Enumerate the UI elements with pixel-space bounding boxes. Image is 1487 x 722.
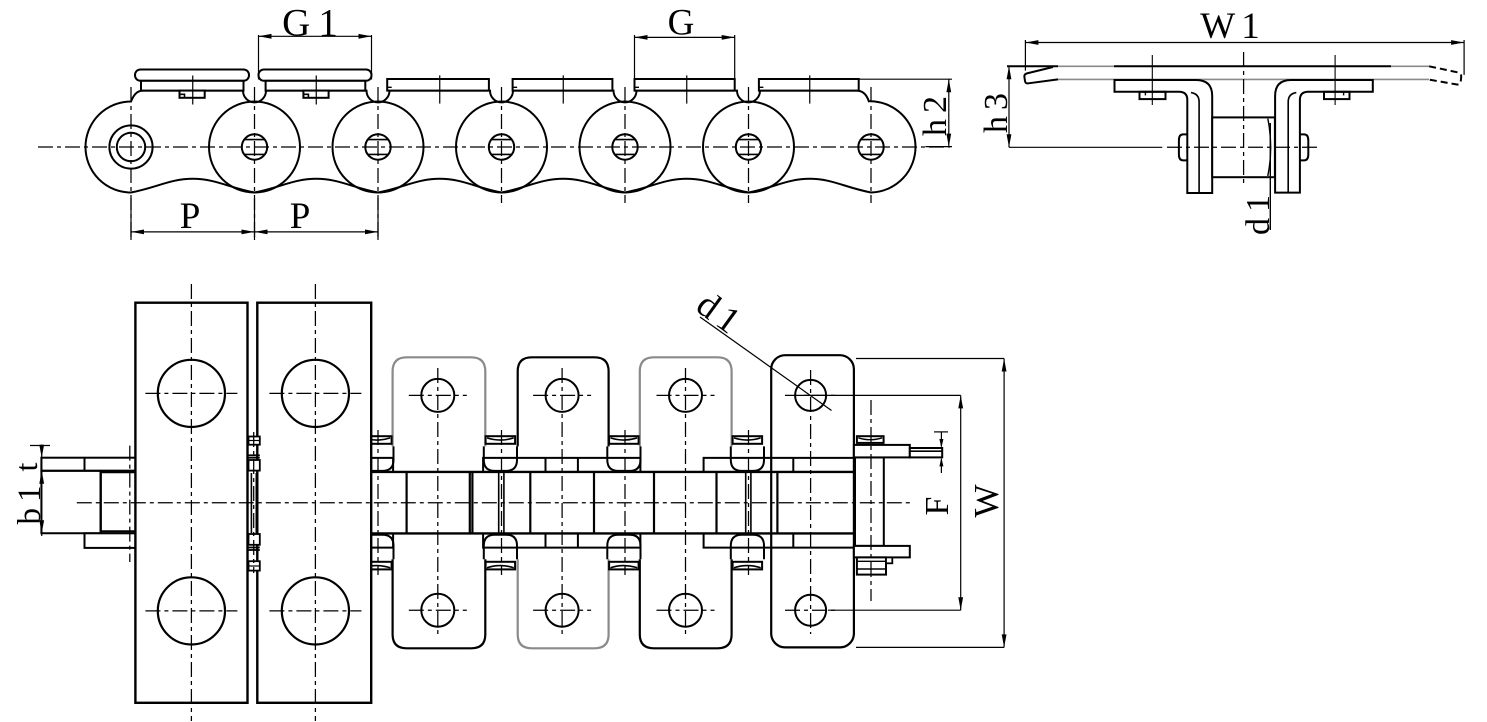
right end pin strip bbox=[855, 457, 884, 546]
plan view horizontal centerline bbox=[77, 502, 913, 504]
attachment plate 1 top bar bbox=[135, 70, 249, 81]
band dividers (bush/roller edges) bbox=[406, 472, 408, 534]
svg-text:P: P bbox=[290, 196, 317, 237]
attachment 5 center mark bbox=[686, 75, 688, 103]
svg-text:d1: d1 bbox=[689, 284, 753, 346]
attachment plate 2 flange bbox=[266, 81, 366, 91]
dimension h3 bbox=[1008, 66, 1010, 147]
mid-pitch centerlines through small plate holes bbox=[437, 368, 439, 637]
dimension t / b1 bbox=[41, 445, 43, 537]
small attachment plates top row bbox=[393, 357, 486, 446]
svg-text:h2: h2 bbox=[917, 90, 954, 136]
svg-text:b1: b1 bbox=[12, 480, 48, 525]
dimension F bbox=[800, 394, 961, 396]
dimension d1 extension bbox=[1269, 123, 1271, 230]
attachment 2 center mark bbox=[315, 76, 317, 105]
spring clips bottom bbox=[362, 562, 392, 570]
svg-text:W: W bbox=[967, 478, 1006, 517]
outer plate bars bottom side bbox=[371, 533, 393, 547]
wide plate vertical centerlines bbox=[190, 284, 192, 721]
pins 2-7 with bush chords bbox=[242, 134, 267, 159]
attachment 4 center mark bbox=[562, 75, 564, 103]
right bracket weld tab bbox=[1324, 92, 1350, 99]
bent feet of attachments at pins, bottom bbox=[360, 535, 393, 560]
dimension W bbox=[856, 358, 1004, 360]
outer plate bars top side bbox=[371, 458, 393, 472]
dimension G bbox=[634, 35, 636, 79]
svg-text:h3: h3 bbox=[978, 87, 1015, 133]
chain band outline bbox=[371, 471, 855, 473]
small attachment plates bottom row bbox=[393, 559, 486, 648]
top plate left bent tip bbox=[1024, 67, 1058, 83]
hole cross marks small plates bbox=[409, 394, 467, 396]
dimension W1 bbox=[1025, 42, 1464, 44]
bracket tab center marks bbox=[1151, 55, 1153, 105]
tall attachment plate D (plan, outline) bbox=[771, 355, 854, 647]
left bracket weld tab bbox=[1140, 92, 1166, 99]
dimension P P bbox=[130, 198, 132, 240]
leader and label d1 (plan) bbox=[700, 317, 832, 411]
flat attachment bar 5 bbox=[635, 79, 735, 91]
attachment plate 1 flange bbox=[141, 81, 244, 91]
side view: chain link plates silhouette bbox=[86, 91, 916, 193]
pin 1 roller (double circle) bbox=[109, 125, 152, 168]
right end bottom bar bbox=[854, 546, 910, 558]
top plate right bent tip (dashed) bbox=[1429, 66, 1461, 84]
wide attachment plate 1 (plan) bbox=[135, 303, 247, 703]
left end bush body bbox=[41, 471, 135, 534]
pin shafts at outer link pins bbox=[498, 473, 500, 534]
svg-text:F: F bbox=[919, 491, 956, 516]
attachment 6 center mark bbox=[809, 75, 811, 103]
flat attachment bar 6 bbox=[759, 79, 859, 91]
pin end left bbox=[1179, 134, 1187, 160]
joint stack between wide plates (pin 2) bbox=[249, 437, 260, 445]
right end top bar with extended pin bbox=[854, 445, 910, 458]
svg-text:G: G bbox=[668, 3, 701, 44]
top plate bottom edge bbox=[1058, 78, 1429, 80]
svg-text:P: P bbox=[180, 196, 207, 237]
attachment plate 2 weld tab bbox=[303, 91, 328, 98]
svg-text:d1: d1 bbox=[1240, 189, 1277, 235]
svg-text:W1: W1 bbox=[1200, 6, 1265, 47]
attachment plate 1 weld tab bbox=[180, 91, 205, 98]
front view: wide top plate W1 bbox=[1007, 65, 1058, 67]
flat attachment bar 4 bbox=[513, 79, 613, 91]
holes of plate D bbox=[795, 380, 826, 411]
pin end right bbox=[1300, 134, 1308, 160]
spring clips top bbox=[362, 436, 392, 444]
side view horizontal centerline bbox=[38, 146, 950, 148]
pin vertical centerlines bbox=[130, 87, 132, 240]
link plate end arcs at intermediate pins bbox=[209, 102, 300, 193]
holes of wide plates bbox=[158, 360, 225, 427]
attachment 1 center mark bbox=[192, 76, 194, 105]
flat attachment bar 3 bbox=[387, 79, 489, 91]
svg-text:G1: G1 bbox=[282, 2, 346, 45]
hole circles of small plates bbox=[421, 379, 454, 412]
dimension G1 bbox=[258, 35, 260, 80]
pin centerlines plan view bbox=[129, 446, 131, 562]
small pin-end dimension ticks bbox=[934, 431, 948, 433]
attachment plate 2 top bar (G1) bbox=[259, 70, 372, 81]
svg-text:t: t bbox=[8, 457, 44, 472]
roller between brackets bbox=[1212, 117, 1275, 177]
front view horizontal centerline bbox=[1167, 146, 1320, 148]
left angle bracket bbox=[1115, 80, 1213, 193]
front view vertical centerline bbox=[1243, 52, 1245, 187]
wide attachment plate 2 (plan) bbox=[257, 303, 371, 703]
bent feet of attachments at pins, top bbox=[360, 446, 393, 471]
right angle bracket bbox=[1275, 80, 1373, 193]
attachment 3 center mark bbox=[439, 75, 441, 103]
left end bottom plate bar bbox=[85, 533, 136, 548]
dimension h2 bbox=[859, 78, 952, 80]
left end pin assembly top plate bar bbox=[41, 458, 135, 471]
right end pin clip bbox=[857, 436, 884, 443]
